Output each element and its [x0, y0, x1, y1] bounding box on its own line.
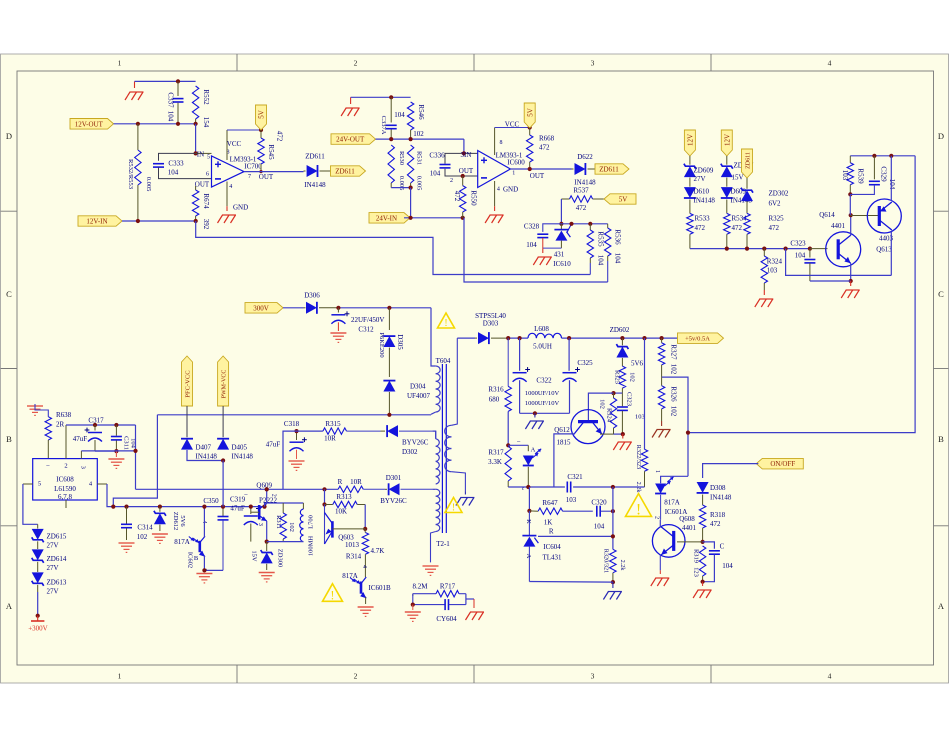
node: [221, 505, 225, 509]
svg-text:C: C: [720, 543, 725, 551]
net ZD611: [595, 164, 629, 174]
svg-text:R668: R668: [539, 134, 555, 142]
svg-text:3: 3: [79, 466, 86, 469]
wire feedback: [786, 249, 892, 276]
svg-text:10R: 10R: [350, 478, 362, 486]
svg-text:2: 2: [354, 59, 358, 68]
svg-text:472: 472: [276, 131, 284, 142]
wire: [849, 194, 851, 215]
svg-text:D303: D303: [483, 320, 499, 328]
svg-text:BYV26C: BYV26C: [402, 438, 429, 446]
svg-text:ZD611: ZD611: [746, 152, 752, 169]
wire collector: [850, 215, 852, 235]
node: [889, 154, 893, 158]
wire anode: [529, 581, 613, 584]
net 5V: [256, 105, 267, 130]
svg-text:!: !: [444, 318, 448, 329]
wire sense 24V: [464, 218, 608, 282]
diode D305 P6KE200: [388, 308, 390, 330]
node: [701, 580, 705, 584]
svg-text:R638: R638: [56, 411, 72, 419]
wire T2-1: [431, 532, 436, 563]
svg-text:TL431: TL431: [542, 554, 562, 562]
svg-text:R: R: [338, 478, 343, 486]
svg-text:T2-1: T2-1: [436, 540, 450, 548]
svg-text:IN4148: IN4148: [196, 453, 218, 461]
node: [221, 458, 225, 462]
svg-text:24V-IN: 24V-IN: [376, 214, 397, 222]
svg-text:2: 2: [450, 178, 453, 184]
svg-text:ZD615: ZD615: [47, 533, 67, 541]
svg-text:6V2: 6V2: [769, 200, 782, 208]
pin2 stub: [65, 425, 67, 459]
capacitor C318: [296, 431, 298, 440]
net PWM-VCC: [218, 356, 229, 406]
node: [660, 336, 664, 340]
svg-text:817A: 817A: [174, 538, 190, 546]
svg-text:8: 8: [500, 140, 503, 146]
capacitor C328: [543, 224, 562, 232]
svg-text:0.005: 0.005: [145, 177, 152, 192]
svg-text:ZD302: ZD302: [769, 190, 789, 198]
svg-text:IC604: IC604: [543, 543, 561, 551]
svg-text:104: 104: [394, 111, 405, 119]
power +300V: [37, 616, 39, 621]
wire base: [677, 541, 703, 543]
wire: [542, 238, 544, 248]
svg-text:104: 104: [167, 111, 175, 122]
ground: [152, 533, 168, 535]
svg-text:L700: L700: [308, 515, 315, 529]
node: [409, 137, 413, 141]
svg-text:R: R: [549, 528, 554, 536]
svg-text:!: !: [636, 501, 641, 518]
svg-text:OUT: OUT: [195, 181, 210, 189]
resistor R315: [323, 428, 347, 434]
ground: [289, 460, 305, 462]
node: [294, 429, 298, 433]
svg-text:10R: 10R: [324, 434, 336, 442]
node: [461, 174, 465, 178]
svg-text:Q608: Q608: [679, 515, 695, 523]
svg-text:IC601B: IC601B: [369, 584, 392, 592]
resistor R545: [260, 130, 262, 138]
zener ZD615: [37, 524, 39, 528]
svg-text:R530: R530: [398, 151, 405, 165]
svg-text:C325: C325: [577, 359, 593, 367]
transformer aux winding: [451, 338, 457, 425]
svg-text:3.3K: 3.3K: [488, 458, 502, 466]
ground blue: [464, 491, 466, 494]
svg-text:6,7,8: 6,7,8: [58, 493, 73, 501]
wire emitter: [365, 597, 367, 604]
ground blue: [612, 582, 614, 588]
resistor R318: [699, 505, 705, 528]
node: [518, 336, 522, 340]
svg-text:D302: D302: [402, 448, 418, 456]
ground: [405, 611, 421, 613]
svg-text:103: 103: [767, 267, 778, 275]
ground: [622, 434, 624, 438]
svg-text:IN: IN: [197, 150, 204, 158]
pin VCC stub: [494, 128, 496, 156]
resistor R717: [412, 594, 414, 596]
transistor Q613: [867, 199, 901, 233]
transistor Q608: [652, 525, 685, 558]
node: [411, 603, 415, 607]
wire primary top: [431, 308, 436, 366]
svg-text:27V: 27V: [47, 588, 59, 596]
ground: [119, 542, 135, 544]
node: [642, 336, 646, 340]
svg-text:GND: GND: [233, 203, 248, 211]
svg-text:2: 2: [271, 494, 277, 497]
wire Q612 collector: [554, 434, 575, 487]
node: [872, 154, 876, 158]
transformer core: [441, 364, 443, 533]
resistor R533: [687, 213, 693, 234]
zener ZD602: [621, 338, 623, 345]
ground: [651, 578, 656, 586]
svg-text:102: 102: [599, 399, 606, 409]
svg-text:R533: R533: [695, 215, 711, 223]
wire: [351, 96, 411, 98]
svg-text:R322/323: R322/323: [635, 445, 642, 469]
svg-text:104: 104: [795, 252, 806, 260]
node: [527, 509, 531, 513]
capacitor CY604: [412, 594, 414, 605]
net 12V-OUT: [70, 119, 114, 130]
svg-text:6: 6: [206, 171, 209, 177]
resistor R537: [561, 198, 569, 200]
wire q609 bus: [136, 488, 339, 490]
wire primary bus: [157, 414, 431, 416]
transformer secondary upper: [435, 431, 437, 439]
svg-text:1: 1: [118, 59, 122, 68]
diode D308: [697, 482, 709, 493]
svg-text:24V-OUT: 24V-OUT: [336, 136, 365, 144]
zener ZD614: [32, 549, 44, 562]
ground: [850, 281, 852, 286]
svg-text:−: −: [46, 462, 50, 470]
svg-text:D609: D609: [731, 188, 747, 196]
svg-text:0.005: 0.005: [416, 176, 423, 191]
svg-text:D610: D610: [694, 188, 710, 196]
wire vcc rail: [66, 424, 136, 426]
resistor R319: [699, 546, 705, 576]
svg-text:27V: 27V: [694, 175, 706, 183]
svg-text:R317: R317: [488, 448, 504, 456]
svg-text:2: 2: [354, 672, 358, 681]
svg-text:123: 123: [693, 567, 700, 577]
node: [322, 487, 326, 491]
svg-text:R546: R546: [417, 104, 425, 120]
svg-text:1K: 1K: [544, 518, 553, 526]
wire: [95, 450, 116, 452]
inductor L608: [528, 333, 536, 338]
node: [526, 485, 530, 489]
diode D303 STPS5L40: [457, 337, 475, 339]
resistor R668: [529, 128, 531, 136]
svg-text:47uF: 47uF: [266, 440, 281, 448]
warning triangle: [445, 498, 462, 513]
node: [745, 247, 749, 251]
svg-text:GND: GND: [503, 185, 518, 193]
svg-text:4: 4: [828, 59, 832, 68]
diode ZD611 IN4148: [304, 170, 306, 172]
ground: [196, 573, 212, 575]
svg-text:D: D: [6, 131, 12, 141]
net 12V-IN: [78, 216, 122, 226]
diode D302 BYV26C: [381, 430, 386, 432]
svg-text:D306: D306: [304, 292, 320, 300]
node: [194, 151, 198, 155]
node: [336, 306, 340, 310]
svg-text:C322: C322: [536, 377, 552, 385]
wire rail: [850, 155, 915, 157]
svg-text:R324: R324: [767, 258, 783, 266]
svg-text:5V: 5V: [526, 108, 534, 117]
diode D610: [684, 187, 696, 198]
capacitor C317: [94, 425, 96, 431]
svg-text:C312: C312: [358, 326, 374, 334]
opto LED IC601A: [655, 484, 666, 494]
svg-text:102: 102: [137, 533, 148, 541]
node: [567, 336, 571, 340]
resistor R539: [849, 156, 851, 163]
svg-text:4: 4: [361, 565, 367, 568]
svg-text:D622: D622: [577, 153, 593, 161]
svg-text:12V: 12V: [687, 134, 695, 146]
capacitor C319: [250, 507, 252, 514]
wire to winding: [432, 431, 435, 439]
wire Q609 emitter: [266, 521, 268, 542]
svg-text:1: 1: [512, 171, 515, 177]
svg-text:15V: 15V: [732, 174, 744, 182]
resistor R325b: [619, 366, 625, 388]
pin GND stub: [494, 181, 496, 206]
node: [93, 423, 97, 427]
ground: [542, 248, 544, 253]
svg-text:300V: 300V: [253, 304, 269, 312]
wire C336 bottom: [445, 169, 478, 176]
svg-text:R537: R537: [573, 187, 589, 195]
opto IC601B: [360, 582, 363, 594]
node: [506, 443, 510, 447]
resistor R530: [388, 145, 394, 183]
resistor R322/323: [644, 338, 646, 449]
svg-text:!: !: [452, 503, 456, 514]
svg-text:4: 4: [229, 184, 232, 190]
svg-text:PWM-VCC: PWM-VCC: [222, 370, 228, 399]
svg-text:OUT: OUT: [459, 167, 474, 175]
svg-text:C320: C320: [591, 498, 607, 506]
node: [611, 534, 615, 538]
pin5 wire: [23, 483, 33, 485]
wire: [702, 582, 704, 586]
svg-text:R717: R717: [440, 583, 456, 591]
svg-text:C337: C337: [167, 92, 175, 108]
wire IC700 out: [244, 171, 304, 173]
node: [136, 122, 140, 126]
svg-text:472: 472: [732, 224, 743, 232]
node: [848, 192, 852, 196]
node: [249, 505, 253, 509]
resistor R532/R553: [137, 124, 139, 150]
svg-text:D405: D405: [232, 444, 248, 452]
svg-text:1: 1: [118, 672, 122, 681]
svg-text:L608: L608: [534, 325, 549, 333]
node: [849, 213, 853, 217]
opto LED IC602: [527, 445, 529, 451]
svg-text:5V6: 5V6: [631, 360, 644, 368]
net ON/OFF: [756, 458, 803, 469]
node: [569, 222, 573, 226]
wire C336 top: [445, 153, 478, 163]
svg-text:R531: R531: [416, 151, 423, 165]
capacitor C322: [519, 338, 521, 371]
wire 12V-IN: [122, 220, 196, 222]
svg-text:R535: R535: [597, 231, 605, 247]
svg-text:ON/OFF: ON/OFF: [770, 460, 795, 468]
node: [322, 502, 326, 506]
svg-text:C314: C314: [137, 524, 153, 532]
wire top bus: [561, 223, 607, 225]
svg-text:5.0UH: 5.0UH: [533, 342, 552, 350]
node: [136, 219, 140, 223]
svg-text:4401: 4401: [831, 222, 846, 230]
svg-text:1815: 1815: [557, 438, 572, 446]
svg-text:431: 431: [554, 250, 565, 258]
ground: [226, 206, 228, 211]
wire cap bus: [520, 412, 570, 414]
svg-text:IN4148: IN4148: [232, 453, 254, 461]
inductor L700: [302, 503, 304, 509]
resistor R531: [407, 145, 413, 183]
svg-text:103: 103: [566, 496, 577, 504]
node: [265, 540, 269, 544]
wire right: [465, 594, 467, 605]
node: [611, 391, 615, 395]
wire node: [614, 392, 623, 394]
svg-text:−: −: [517, 437, 521, 445]
IC610 TL431: [560, 224, 562, 230]
svg-text:104: 104: [888, 179, 896, 190]
node: [409, 186, 413, 190]
svg-text:104: 104: [597, 255, 605, 266]
svg-text:R327: R327: [670, 344, 678, 360]
svg-text:BYV26C: BYV26C: [380, 497, 407, 505]
node: [389, 95, 393, 99]
net ZD611: [742, 149, 753, 178]
resistor R317: [505, 446, 511, 481]
node: [114, 449, 118, 453]
svg-text:P6KE200: P6KE200: [378, 332, 385, 357]
svg-text:5: 5: [207, 154, 210, 160]
wire Q613 collector: [890, 231, 892, 275]
svg-text:R313: R313: [336, 493, 352, 501]
svg-text:5V: 5V: [619, 196, 628, 204]
wire 24V-IN: [404, 217, 464, 219]
svg-text:1: 1: [654, 470, 660, 473]
net 24V-IN: [369, 213, 410, 224]
wire base bus: [690, 248, 810, 250]
wire Q609 collector: [266, 489, 268, 503]
svg-text:102: 102: [413, 130, 424, 138]
wire: [338, 307, 431, 309]
net 12V: [721, 130, 732, 156]
svg-text:Q609: Q609: [256, 482, 272, 490]
node: [124, 505, 128, 509]
diode D609: [721, 187, 733, 198]
wire divider bottom: [267, 541, 304, 543]
svg-text:472: 472: [539, 144, 550, 152]
pin base Q614: [810, 248, 828, 250]
net 300V: [245, 303, 283, 314]
node: [559, 222, 563, 226]
capacitor C314: [126, 507, 128, 524]
svg-text:B: B: [6, 434, 12, 444]
svg-text:817A: 817A: [664, 499, 680, 507]
node: [176, 79, 180, 83]
pin VCC stub: [226, 130, 228, 160]
svg-text:T604: T604: [436, 357, 451, 365]
transistor Q603: [324, 505, 326, 545]
svg-text:ZD612: ZD612: [172, 512, 179, 530]
svg-text:−: −: [244, 491, 248, 499]
capacitor C337A: [390, 97, 392, 122]
transistor Q614: [826, 232, 861, 267]
svg-text:!: !: [330, 588, 334, 602]
wire: [662, 377, 688, 476]
capacitor C: [703, 542, 715, 549]
svg-text:102: 102: [670, 406, 678, 417]
opto IC602 transistor: [199, 541, 202, 552]
wire: [195, 124, 197, 154]
svg-text:IC608: IC608: [56, 476, 74, 484]
svg-text:R320/321: R320/321: [603, 549, 610, 573]
node: [611, 485, 615, 489]
svg-text:5V6: 5V6: [179, 515, 186, 527]
svg-text:103: 103: [841, 170, 849, 181]
svg-text:104: 104: [614, 253, 622, 264]
svg-text:D407: D407: [196, 444, 212, 452]
svg-text:4401: 4401: [682, 524, 697, 532]
svg-text:104: 104: [526, 241, 537, 249]
svg-text:C318: C318: [284, 420, 300, 428]
svg-text:A: A: [531, 446, 536, 453]
wire: [324, 489, 326, 504]
capacitor C320: [596, 506, 598, 517]
wire emitter: [850, 263, 852, 281]
wire: [391, 187, 410, 189]
node: [389, 137, 393, 141]
node: [462, 151, 466, 155]
capacitor C329: [873, 156, 875, 180]
node: [202, 505, 206, 509]
svg-text:R315: R315: [325, 420, 341, 428]
svg-text:3: 3: [257, 523, 263, 526]
warning triangle: [323, 584, 343, 602]
svg-text:OUT: OUT: [259, 173, 274, 181]
svg-text:102: 102: [670, 364, 678, 375]
node: [265, 487, 269, 491]
diode D306: [304, 307, 306, 309]
svg-text:D301: D301: [386, 474, 402, 482]
svg-text:IC610: IC610: [553, 260, 571, 268]
resistor R313: [325, 504, 333, 506]
zener ZD300: [266, 542, 268, 551]
